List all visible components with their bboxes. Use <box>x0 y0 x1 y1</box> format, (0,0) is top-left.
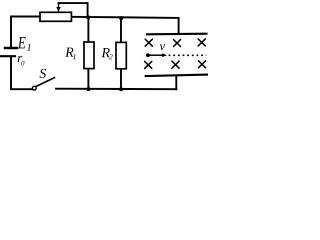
resistor R2 box <box>116 42 126 68</box>
junction node R2 bottom <box>119 87 123 91</box>
field cross row2 col2 <box>172 61 179 68</box>
velocity particle dot <box>146 53 150 57</box>
deflecting plate top <box>147 33 207 36</box>
field cross row1 col3 <box>198 39 205 46</box>
junction node J1 <box>86 15 90 19</box>
label R2-sub <box>109 54 113 59</box>
switch S blade <box>36 78 54 87</box>
battery E1 short plate <box>5 47 17 50</box>
wire top horizontal main <box>71 17 178 18</box>
label E1-sub <box>27 44 31 51</box>
wire bottom right segment <box>56 88 176 91</box>
label R1-sub <box>73 54 76 59</box>
field cross row2 col3 <box>198 61 205 68</box>
wire bottom left segment <box>11 57 32 89</box>
label R1-R <box>65 48 73 57</box>
battery E1 long plate <box>1 55 16 57</box>
wire right corner down to top plate <box>178 18 180 34</box>
junction node J2 <box>119 16 123 20</box>
field cross row2 col1 <box>145 61 152 68</box>
label v <box>160 44 165 50</box>
wire bottom plate lead <box>175 75 177 89</box>
switch S pivot circle <box>32 86 36 90</box>
label R2-R <box>101 48 109 57</box>
velocity vector arrowhead <box>162 53 167 57</box>
trajectory dotted line <box>169 54 207 56</box>
label r0-sub <box>21 61 24 66</box>
label r0-r <box>18 56 23 62</box>
deflecting plate bottom <box>146 75 207 76</box>
velocity vector shaft <box>148 54 163 56</box>
junction node R1 bottom <box>87 87 91 91</box>
wire R2 branch <box>120 18 122 89</box>
field cross row1 col1 <box>145 39 152 46</box>
label S <box>40 69 46 78</box>
rheostat wiper arrow shaft <box>58 3 60 8</box>
label E1-E <box>18 37 26 48</box>
wiper wire over to node <box>59 3 88 17</box>
wire R1 branch <box>87 18 89 90</box>
rheostat box <box>40 12 71 21</box>
resistor R1 box <box>84 42 94 69</box>
rheostat wiper arrowhead <box>56 7 60 12</box>
wire left vertical top segment <box>11 17 40 47</box>
field cross row1 col2 <box>173 40 180 47</box>
